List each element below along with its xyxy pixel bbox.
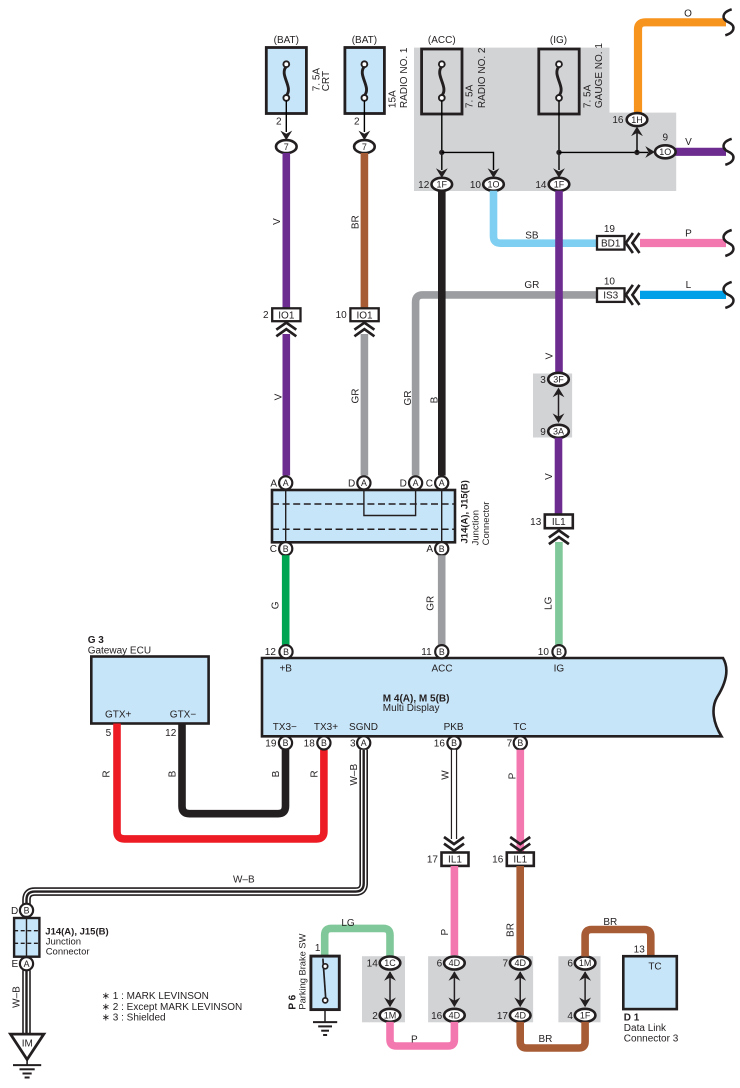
svg-text:V: V xyxy=(272,218,283,225)
wire G (to +B) xyxy=(282,555,290,645)
chevron BD1 xyxy=(626,233,640,253)
svg-text:V: V xyxy=(545,352,556,359)
svg-text:17: 17 xyxy=(497,1011,509,1022)
junction pin D (A) first xyxy=(357,476,370,489)
wire R (GTX+ to TX3+) xyxy=(117,724,324,839)
svg-text:4D: 4D xyxy=(514,1011,526,1021)
svg-text:10: 10 xyxy=(336,310,348,321)
shading around 4D connectors xyxy=(428,956,533,1022)
connector 3F (pin 3) xyxy=(548,373,569,386)
svg-text:1M: 1M xyxy=(384,1011,397,1021)
svg-text:19: 19 xyxy=(604,224,616,235)
svg-text:B: B xyxy=(517,738,523,748)
multi pin 12 (B) +B xyxy=(279,645,292,658)
svg-text:11: 11 xyxy=(421,647,432,658)
wire W (PKB to IL1) xyxy=(451,750,457,839)
svg-text:(BAT): (BAT) xyxy=(274,35,299,46)
svg-text:GR: GR xyxy=(351,389,362,404)
svg-text:GTX+: GTX+ xyxy=(105,710,132,721)
junction internal bus D-D xyxy=(364,490,416,516)
junction internal path A-C xyxy=(285,490,287,542)
connector 1F (pin 14) xyxy=(549,178,570,191)
junction internal path C-A xyxy=(441,490,443,542)
svg-text:J14(A), J15(B): J14(A), J15(B) xyxy=(459,480,470,543)
wire O (orange) xyxy=(638,22,726,114)
svg-text:P: P xyxy=(440,929,451,936)
svg-text:1F: 1F xyxy=(580,1011,591,1021)
wire B (GTX- to TX3-) xyxy=(182,724,286,814)
parking brake switch box xyxy=(311,956,339,1010)
wire P (IL1 to 4D) xyxy=(451,866,459,955)
wire BR (to IO1) xyxy=(361,153,369,308)
junction pin D (A) second xyxy=(409,476,422,489)
arrowhead up (1M-1F) xyxy=(579,971,591,981)
svg-text:12: 12 xyxy=(265,647,277,658)
multi pin 10 (B) IG xyxy=(552,645,565,658)
multi pin 18 (B) TX3+ xyxy=(317,736,330,749)
svg-text:B: B xyxy=(439,544,445,554)
shading around 1M/1F connectors xyxy=(558,956,600,1022)
svg-text:6: 6 xyxy=(437,959,443,970)
junction pin C (B) xyxy=(279,542,292,555)
arrow into connector 7 (second) xyxy=(359,131,371,141)
double arrow 3F-3A xyxy=(558,390,560,421)
fuse box 15A RADIO NO. 1 xyxy=(345,48,385,114)
connector BD1 xyxy=(597,236,625,250)
connector IL1 (pin 16) xyxy=(507,853,534,866)
connector 1H xyxy=(627,113,648,126)
ground symbol P6 xyxy=(313,1022,337,1035)
svg-text:IL1: IL1 xyxy=(552,517,566,528)
svg-text:G 3: G 3 xyxy=(88,635,105,646)
svg-text:RADIO NO. 2: RADIO NO. 2 xyxy=(477,47,488,108)
double arrow 1C-1M xyxy=(389,972,391,1006)
svg-text:B: B xyxy=(168,770,179,777)
junction connector J14/J15 box xyxy=(272,490,455,542)
svg-text:IO1: IO1 xyxy=(356,310,373,321)
arrowhead down to 3A xyxy=(553,413,565,423)
arrowhead up to 3F xyxy=(553,388,565,398)
svg-text:W–B: W–B xyxy=(11,986,22,1008)
svg-text:B: B xyxy=(271,770,282,777)
svg-text:∗ 2 : Except MARK LEVINSON: ∗ 2 : Except MARK LEVINSON xyxy=(102,1002,243,1013)
wire P (pink, from BD1) xyxy=(640,239,726,247)
junction lower center line xyxy=(26,918,28,957)
wire fuse CRT to connector 7 xyxy=(285,101,287,133)
svg-text:1C: 1C xyxy=(384,958,396,968)
svg-text:GR: GR xyxy=(524,280,539,291)
arrowhead up (4D pair left) xyxy=(449,971,461,981)
chevron into IL1-16 xyxy=(510,837,530,851)
fuse box 7.5A RADIO NO. 2 xyxy=(422,49,462,114)
svg-text:B: B xyxy=(24,905,30,915)
svg-text:P: P xyxy=(685,229,692,240)
arrow into 1F (pin 14) xyxy=(553,168,565,178)
junction lower dashed lines xyxy=(14,931,39,944)
svg-text:10: 10 xyxy=(538,647,550,658)
svg-text:∗ 1 : MARK LEVINSON: ∗ 1 : MARK LEVINSON xyxy=(102,991,209,1002)
arrow into 1O (pin 10) xyxy=(488,168,500,178)
svg-text:BD1: BD1 xyxy=(601,238,621,249)
svg-text:R: R xyxy=(102,770,113,777)
connector IS3 xyxy=(597,288,625,302)
svg-text:(IG): (IG) xyxy=(550,35,567,46)
arrow into 1F (pin 12) xyxy=(436,168,448,178)
fuse element RADIO NO.1 xyxy=(362,61,368,101)
svg-text:12: 12 xyxy=(418,180,430,191)
switch contact top xyxy=(323,964,328,969)
connector 7 (CRT) xyxy=(276,140,297,153)
svg-text:PKB: PKB xyxy=(444,722,464,733)
junction pin A (B) xyxy=(435,542,448,555)
ground symbol IM xyxy=(13,1059,41,1078)
svg-text:D 1: D 1 xyxy=(624,1013,640,1024)
svg-text:14: 14 xyxy=(367,959,379,970)
svg-text:V: V xyxy=(685,137,692,148)
svg-text:GR: GR xyxy=(403,391,414,406)
multi display M4/M5 box xyxy=(262,658,726,736)
connector 7 (RADIO NO.1) xyxy=(354,140,375,153)
svg-text:16: 16 xyxy=(434,738,446,749)
svg-text:C: C xyxy=(426,478,433,489)
wire parking brake to ground xyxy=(324,1010,326,1022)
svg-text:IG: IG xyxy=(554,664,565,675)
multi pin 11 (B) ACC xyxy=(435,645,448,658)
wire SB (1O to BD1) xyxy=(494,191,598,243)
G3 Gateway ECU box xyxy=(91,657,208,724)
wire GR (IS3 to junction D) xyxy=(416,295,597,476)
wire V (1F to 3F) xyxy=(555,191,563,373)
svg-text:7: 7 xyxy=(502,959,508,970)
connector 4D (pin 16) xyxy=(444,1009,465,1022)
wire LG (parking brake to 1C) xyxy=(325,928,390,956)
break symbol wire P xyxy=(724,230,734,256)
arrowhead down (4D pair left) xyxy=(449,998,461,1008)
svg-text:BR: BR xyxy=(506,923,517,937)
arrow into 1H (pin 16) xyxy=(631,127,643,137)
wire V (fuse CRT to IO1) xyxy=(282,153,290,308)
chevron IO1 right xyxy=(354,323,374,337)
wire V to right xyxy=(676,148,727,156)
svg-text:A: A xyxy=(361,478,367,488)
wire branch up to 1H xyxy=(636,132,638,152)
svg-text:B: B xyxy=(283,647,289,657)
svg-text:GAUGE NO. 1: GAUGE NO. 1 xyxy=(594,43,605,108)
svg-text:RADIO NO. 1: RADIO NO. 1 xyxy=(399,47,410,108)
svg-text:V: V xyxy=(544,473,555,480)
shading around 3F/3A connectors xyxy=(533,374,572,438)
svg-text:SB: SB xyxy=(525,230,539,241)
wire IG branch right xyxy=(559,151,648,153)
svg-text:9: 9 xyxy=(663,133,669,144)
connector 4D (pin 6) xyxy=(444,957,465,970)
chevron IO1 left xyxy=(276,323,296,337)
svg-text:7: 7 xyxy=(284,142,289,152)
connector 1F (pin 4) xyxy=(575,1009,596,1022)
arrowhead down (1M-1F) xyxy=(579,998,591,1008)
svg-text:BR: BR xyxy=(538,1034,552,1045)
wire W-B through junction xyxy=(22,917,31,919)
svg-text:B: B xyxy=(283,544,289,554)
svg-text:3: 3 xyxy=(350,738,356,749)
break symbol wire L xyxy=(724,282,734,308)
svg-text:B: B xyxy=(283,738,289,748)
svg-text:W–B: W–B xyxy=(233,875,255,886)
svg-text:1O: 1O xyxy=(487,180,499,190)
double arrow 1M-1F xyxy=(584,972,586,1006)
wire ACC branch to 1O xyxy=(442,152,494,170)
svg-text:CRT: CRT xyxy=(321,71,332,91)
svg-text:1: 1 xyxy=(315,943,321,954)
svg-text:TX3−: TX3− xyxy=(273,722,297,733)
svg-text:(ACC): (ACC) xyxy=(428,35,456,46)
wire W-B (junction to ground) xyxy=(22,970,31,1034)
fuse element CRT xyxy=(283,61,289,101)
svg-text:D: D xyxy=(11,906,18,917)
wire fuse RADIO1 to connector 7 xyxy=(363,101,365,133)
svg-text:IM: IM xyxy=(22,1038,33,1049)
wire ACC fuse down xyxy=(441,101,443,171)
svg-text:B: B xyxy=(556,647,562,657)
wire V (3A to IL1) xyxy=(555,438,563,515)
svg-text:A: A xyxy=(270,478,277,489)
svg-text:TX3+: TX3+ xyxy=(314,722,338,733)
svg-text:14: 14 xyxy=(535,180,547,191)
svg-text:1O: 1O xyxy=(659,147,671,157)
svg-text:19: 19 xyxy=(265,738,277,749)
multi pin 7 (B) TC xyxy=(514,736,527,749)
wire GR (to ACC) xyxy=(438,555,446,645)
svg-text:W–B: W–B xyxy=(349,764,360,786)
svg-text:G: G xyxy=(271,601,282,609)
svg-text:10: 10 xyxy=(604,276,616,287)
svg-text:LG: LG xyxy=(341,918,355,929)
svg-text:TC: TC xyxy=(648,962,661,973)
svg-text:(BAT): (BAT) xyxy=(352,35,377,46)
svg-text:C: C xyxy=(270,544,277,555)
svg-text:IS3: IS3 xyxy=(603,291,618,302)
svg-text:A: A xyxy=(426,544,433,555)
svg-text:2: 2 xyxy=(276,116,282,127)
svg-text:L: L xyxy=(686,280,692,291)
connector 1O (pin 10) xyxy=(483,178,504,191)
junction dot ACC xyxy=(439,150,444,155)
chevron IL1-13 xyxy=(549,530,569,544)
fuse element GAUGE NO.1 xyxy=(556,61,562,101)
junction lower pin E (A) xyxy=(20,957,33,970)
connector 1F (pin 12) xyxy=(432,178,453,191)
connector IO1 (pin 2) xyxy=(272,308,300,321)
wire BR (1M to DLC3) xyxy=(585,930,651,957)
arrowhead up (4D pair right) xyxy=(514,971,526,981)
junction connector J14/J15 lower box xyxy=(14,918,39,957)
svg-text:A: A xyxy=(24,959,30,969)
wire LG (IL1 to IG pin) xyxy=(555,542,563,645)
svg-text:∗ 3 : Shielded: ∗ 3 : Shielded xyxy=(102,1013,166,1024)
wire BR (IL1 to 4D) xyxy=(516,866,524,955)
svg-text:3A: 3A xyxy=(553,427,564,437)
svg-text:1H: 1H xyxy=(631,115,643,125)
svg-text:D: D xyxy=(400,478,407,489)
wire P (1M to 4D bottom loop) xyxy=(390,1022,454,1046)
svg-text:2: 2 xyxy=(354,116,360,127)
switch contact bottom xyxy=(323,998,328,1003)
connector 3A (pin 9) xyxy=(548,425,569,438)
connector 1O (pin 9) xyxy=(655,145,676,158)
wire L (blue, from IS3) xyxy=(640,291,726,299)
svg-text:16: 16 xyxy=(492,855,504,866)
double arrow 4D pair right xyxy=(519,972,521,1006)
svg-text:1F: 1F xyxy=(554,180,565,190)
ground triangle IM xyxy=(11,1034,44,1059)
fuse box 7.5A CRT xyxy=(266,48,306,114)
wire B (1F to junction C) xyxy=(438,191,446,476)
connector 1M (pin 6) xyxy=(575,957,596,970)
svg-text:+B: +B xyxy=(279,664,292,675)
switch blade P6 xyxy=(323,959,326,999)
multi pin 19 (B) TX3- xyxy=(279,736,292,749)
svg-text:4D: 4D xyxy=(449,1011,461,1021)
arrow into 1O (pin 9) xyxy=(645,146,655,158)
svg-text:3F: 3F xyxy=(553,375,564,385)
svg-text:Connector: Connector xyxy=(46,946,90,957)
arrowhead down (4D pair right) xyxy=(514,998,526,1008)
svg-text:Connector: Connector xyxy=(481,502,492,546)
connector 4D (pin 17) xyxy=(510,1009,531,1022)
svg-text:GR: GR xyxy=(426,596,437,611)
svg-text:LG: LG xyxy=(544,596,555,610)
svg-text:2: 2 xyxy=(263,310,269,321)
svg-text:IO1: IO1 xyxy=(278,310,295,321)
svg-text:16: 16 xyxy=(431,1011,443,1022)
svg-text:V: V xyxy=(273,393,284,400)
svg-text:A: A xyxy=(283,478,289,488)
svg-text:P: P xyxy=(411,1035,418,1046)
svg-text:7: 7 xyxy=(362,142,367,152)
svg-text:15A: 15A xyxy=(388,90,399,108)
svg-text:B: B xyxy=(430,396,441,403)
wire P (TC to IL1) xyxy=(516,750,524,853)
svg-text:B: B xyxy=(439,647,445,657)
svg-text:5: 5 xyxy=(106,728,112,739)
fuse box 7.5A GAUGE NO. 1 xyxy=(539,49,579,114)
junction pin A (A) xyxy=(279,476,292,489)
junction dot to 1H xyxy=(634,150,639,155)
svg-text:R: R xyxy=(310,770,321,777)
svg-text:A: A xyxy=(439,478,445,488)
chevron into IL1-17 xyxy=(444,837,464,851)
multi pin 16 (B) PKB xyxy=(447,736,460,749)
svg-text:Parking Brake SW: Parking Brake SW xyxy=(298,933,308,1009)
svg-text:GTX−: GTX− xyxy=(170,710,197,721)
connector 4D (pin 7) xyxy=(510,957,531,970)
svg-text:13: 13 xyxy=(530,517,542,528)
svg-text:IL1: IL1 xyxy=(448,855,462,866)
wire V (IO1 to junction A) xyxy=(282,334,290,476)
svg-text:7: 7 xyxy=(507,738,513,749)
wire W-B (SGND to junction) xyxy=(27,750,364,904)
svg-text:Gateway ECU: Gateway ECU xyxy=(88,646,151,657)
svg-text:O: O xyxy=(684,8,692,19)
svg-text:1F: 1F xyxy=(437,180,448,190)
svg-text:W: W xyxy=(441,770,452,780)
svg-text:17: 17 xyxy=(427,855,439,866)
svg-text:A: A xyxy=(361,738,367,748)
svg-text:10: 10 xyxy=(470,180,482,191)
svg-text:12: 12 xyxy=(165,728,177,739)
svg-text:9: 9 xyxy=(540,427,546,438)
junction dashed bus lines xyxy=(272,504,455,529)
fuse block shading (ACC/IG area) xyxy=(414,48,676,191)
svg-text:13: 13 xyxy=(634,944,646,955)
svg-text:SGND: SGND xyxy=(349,722,378,733)
svg-text:B: B xyxy=(321,738,327,748)
svg-text:B: B xyxy=(451,738,457,748)
junction lower pin D (B) xyxy=(20,904,33,917)
arrow into connector 7 (left) xyxy=(280,131,292,141)
svg-text:2: 2 xyxy=(372,1011,378,1022)
svg-text:18: 18 xyxy=(304,738,316,749)
break symbol wire V xyxy=(724,139,734,165)
svg-text:7. 5A: 7. 5A xyxy=(582,84,593,108)
wire IG fuse down xyxy=(558,101,560,171)
svg-text:1M: 1M xyxy=(579,958,592,968)
svg-text:D: D xyxy=(348,478,355,489)
svg-text:IL1: IL1 xyxy=(513,855,527,866)
arrowhead down (1C-1M) xyxy=(384,998,396,1008)
multi pin 3 (A) SGND xyxy=(357,736,370,749)
svg-text:Multi Display: Multi Display xyxy=(383,703,440,714)
svg-text:4D: 4D xyxy=(514,958,526,968)
break symbol wire O xyxy=(724,9,734,35)
D1 data link connector box xyxy=(623,956,677,1009)
connector IO1 (pin 10) xyxy=(350,308,378,321)
connector 1C (pin 14) xyxy=(380,957,401,970)
svg-text:BR: BR xyxy=(603,917,617,928)
wire BR (4D to 1F bottom loop) xyxy=(520,1022,585,1048)
shading around 1C/1M connectors xyxy=(362,956,405,1022)
svg-text:4: 4 xyxy=(567,1011,573,1022)
svg-text:TC: TC xyxy=(513,722,526,733)
double arrow 4D pair left xyxy=(453,972,455,1006)
svg-text:Connector 3: Connector 3 xyxy=(624,1034,679,1045)
svg-text:4D: 4D xyxy=(449,958,461,968)
arrowhead up (1C-1M) xyxy=(384,971,396,981)
chevron IS3 xyxy=(626,285,640,305)
svg-text:Data Link: Data Link xyxy=(624,1023,667,1034)
svg-text:3: 3 xyxy=(540,375,546,386)
svg-text:6: 6 xyxy=(567,959,573,970)
svg-text:ACC: ACC xyxy=(431,664,452,675)
connector 1M (pin 2) xyxy=(380,1009,401,1022)
fuse element RADIO NO.2 xyxy=(439,61,445,101)
svg-text:A: A xyxy=(413,478,419,488)
junction pin C (A) xyxy=(435,476,448,489)
wire GR (IO1 to junction D) xyxy=(361,334,369,476)
svg-text:16: 16 xyxy=(612,115,624,126)
connector IL1 (pin 13) xyxy=(545,515,573,529)
junction dot IG xyxy=(556,150,561,155)
svg-text:E: E xyxy=(12,959,19,970)
svg-text:BR: BR xyxy=(351,215,362,229)
svg-text:7. 5A: 7. 5A xyxy=(465,84,476,108)
svg-text:P: P xyxy=(508,772,519,779)
connector IL1 (pin 17) xyxy=(442,853,469,866)
